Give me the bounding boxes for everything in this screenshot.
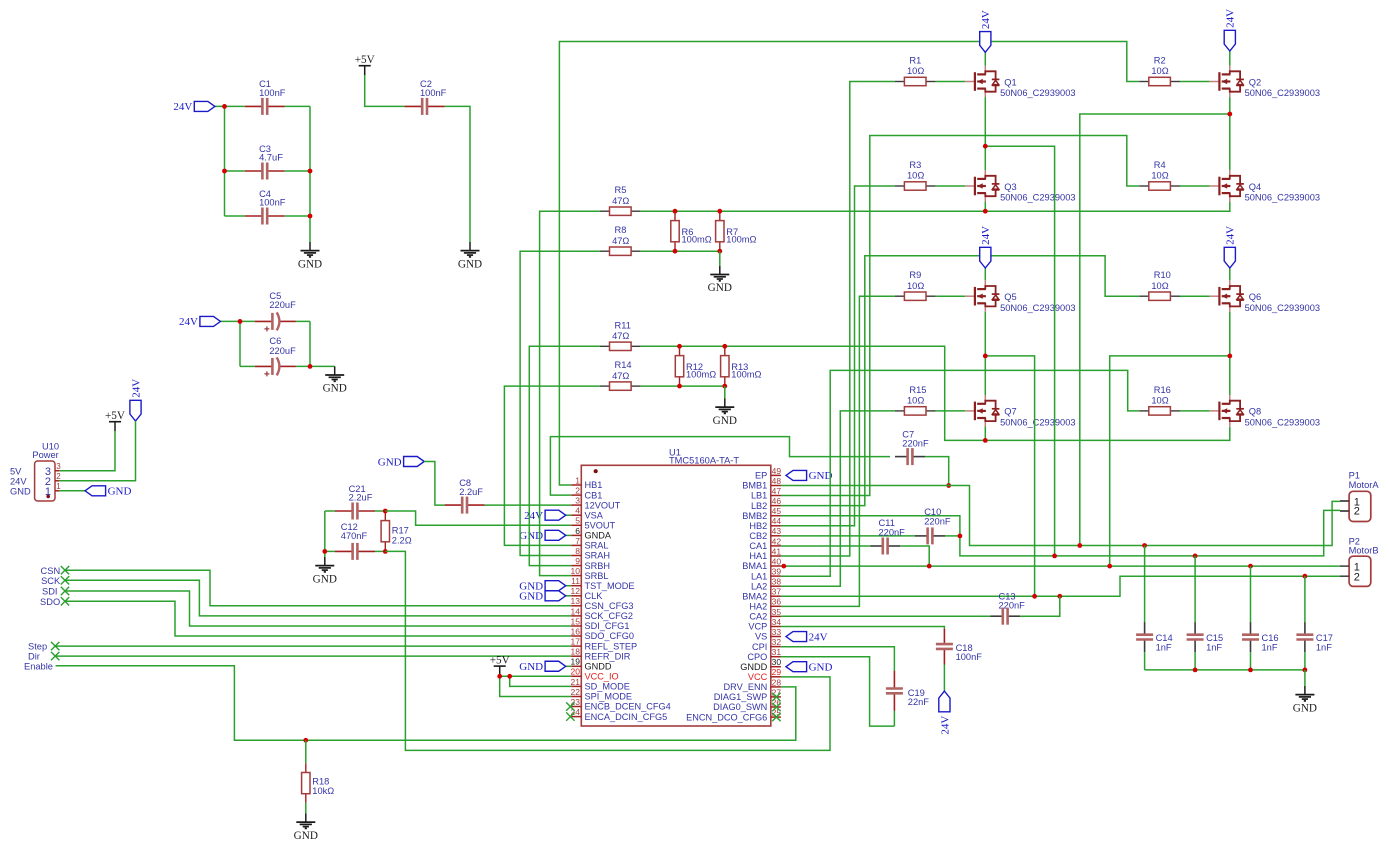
svg-text:BMA2: BMA2 — [742, 591, 767, 601]
U1 pin 46 LB2 — [751, 496, 781, 511]
svg-text:R1: R1 — [909, 56, 921, 66]
svg-text:220nF: 220nF — [902, 438, 929, 448]
svg-text:2.2uF: 2.2uF — [349, 493, 373, 503]
U1 pin-1 marker dot — [594, 469, 598, 473]
net flag 24V (U10) — [130, 379, 143, 421]
U1 pin 16 SDO_CFG0 — [571, 626, 635, 641]
net LA1: pin39 to R16 — [781, 370, 1139, 576]
U1 pin 27 DIAG1_SWP — [714, 687, 782, 702]
svg-text:24V: 24V — [809, 631, 828, 643]
net LB2: pin46 to R10 — [781, 256, 1139, 506]
wire C2 to GND — [445, 106, 470, 242]
svg-text:Q3: Q3 — [1004, 182, 1016, 192]
svg-text:CSN_CFG3: CSN_CFG3 — [585, 601, 634, 611]
U1 pin 12 CLK — [571, 586, 604, 601]
net VCP: pin34 to C18 — [781, 627, 945, 629]
svg-text:470nF: 470nF — [341, 531, 368, 541]
wire C3 row right — [285, 170, 310, 172]
wire Step to pin17 — [55, 645, 571, 647]
junction — [222, 104, 227, 109]
wire C13 to BMA2 row — [1020, 596, 1060, 616]
junction — [383, 549, 388, 554]
net BMB1: pin48 to P1 pin1 — [781, 486, 1340, 546]
svg-text:40: 40 — [772, 556, 782, 566]
junction — [983, 209, 988, 214]
wire SDI to pin15 — [65, 591, 571, 626]
capacitor C6 — [255, 357, 296, 376]
svg-text:1nF: 1nF — [1206, 643, 1222, 653]
svg-text:+5V: +5V — [490, 654, 510, 666]
svg-text:HB2: HB2 — [749, 521, 767, 531]
wire C5-C6 left rail — [239, 321, 241, 366]
svg-text:R17: R17 — [392, 526, 409, 536]
wire node to Q7 drain — [984, 356, 986, 395]
net flag GND (U10) — [85, 486, 131, 498]
port Dir — [51, 652, 59, 660]
svg-text:CA1: CA1 — [749, 541, 767, 551]
U1 pin 35 CA2 — [749, 607, 781, 622]
ground (R18) — [294, 814, 318, 842]
svg-text:22nF: 22nF — [908, 697, 930, 707]
svg-text:GND: GND — [298, 258, 322, 270]
svg-text:2.2uF: 2.2uF — [459, 487, 483, 497]
wire C16 top — [1250, 566, 1252, 622]
svg-text:4: 4 — [575, 506, 580, 516]
svg-text:41: 41 — [772, 546, 782, 556]
svg-text:VCC: VCC — [748, 672, 768, 682]
wire 24V to C5 — [221, 320, 255, 322]
junction — [1057, 594, 1062, 599]
U1 pin 42 CA1 — [749, 536, 781, 551]
resistor R11 — [600, 320, 641, 350]
svg-text:R15: R15 — [909, 385, 926, 395]
junction — [308, 214, 313, 219]
svg-text:Step: Step — [28, 642, 47, 652]
wire C5-C6 right rail — [309, 321, 311, 366]
svg-text:50N06_C2939003: 50N06_C2939003 — [1245, 303, 1320, 313]
svg-text:LA2: LA2 — [751, 581, 767, 591]
ground (C2) — [458, 242, 482, 270]
svg-text:GND: GND — [713, 415, 737, 427]
svg-text:C16: C16 — [1262, 633, 1279, 643]
resistor R5 — [600, 185, 641, 215]
wire Q1 source to node — [984, 97, 986, 146]
port CSN — [61, 566, 69, 574]
svg-text:10kΩ: 10kΩ — [312, 786, 334, 796]
phase A2 to motor bus — [985, 356, 1034, 596]
svg-text:TMC5160A-TA-T: TMC5160A-TA-T — [669, 456, 739, 466]
U1 pin 18 REFR_DIR — [571, 647, 631, 662]
svg-text:Q8: Q8 — [1249, 407, 1261, 417]
wire R18 to GND — [305, 803, 307, 814]
svg-text:50N06_C2939003: 50N06_C2939003 — [1000, 88, 1075, 98]
junction — [958, 534, 963, 539]
wire C6 row left — [240, 365, 255, 367]
U1 pin 7 SRAL — [571, 536, 608, 551]
svg-text:16: 16 — [571, 626, 581, 636]
junction — [308, 364, 313, 369]
wire C1 to right rail — [285, 105, 310, 107]
junction — [1052, 554, 1057, 559]
svg-text:Q4: Q4 — [1249, 182, 1261, 192]
svg-text:LA1: LA1 — [751, 571, 767, 581]
svg-text:17: 17 — [571, 637, 581, 647]
svg-text:R11: R11 — [615, 320, 631, 330]
svg-text:24V: 24V — [980, 226, 992, 245]
junction — [1248, 668, 1253, 673]
svg-text:49: 49 — [772, 466, 782, 476]
net flag 24V (Q5) — [980, 226, 993, 268]
junction phase Q1/Q3 — [983, 144, 988, 149]
wire C17 bottom — [1304, 652, 1306, 670]
resistor R6 — [671, 211, 712, 251]
wire R10 to Q6 gate — [1180, 295, 1210, 297]
svg-text:R3: R3 — [909, 160, 921, 170]
svg-text:GND: GND — [378, 456, 402, 468]
svg-text:38: 38 — [772, 577, 782, 587]
net CB1: pin2 to C7 — [550, 437, 890, 496]
svg-text:SCK_CFG2: SCK_CFG2 — [585, 611, 634, 621]
resistor R14 — [600, 360, 641, 390]
wire R7 to GND — [719, 251, 721, 266]
svg-text:R2: R2 — [1154, 56, 1166, 66]
wire Q3 source to sense row — [984, 202, 986, 212]
wire C14 bottom — [1144, 652, 1146, 670]
wire node to Q3 drain — [984, 146, 986, 170]
svg-text:GND: GND — [458, 258, 482, 270]
svg-text:HA2: HA2 — [749, 602, 767, 612]
junction — [677, 384, 682, 389]
svg-text:DIAG0_SWN: DIAG0_SWN — [713, 702, 767, 712]
junction — [1107, 564, 1112, 569]
sense row B bottom — [641, 250, 720, 252]
stub pin6 — [566, 534, 572, 536]
svg-text:8: 8 — [575, 546, 580, 556]
U1 pin 19 GNDD — [571, 657, 612, 672]
wire Dir to pin18 — [55, 655, 571, 657]
capacitor C14 — [1136, 622, 1153, 652]
U1 pin 21 SD_MODE — [571, 677, 630, 692]
svg-text:39: 39 — [772, 567, 782, 577]
svg-text:CB2: CB2 — [749, 531, 767, 541]
junction — [717, 209, 722, 214]
wire Q2 drain from 24V — [1229, 51, 1231, 66]
capacitor C11 — [870, 538, 900, 555]
net CB2: pin43 to C10 — [781, 535, 915, 537]
no-connect pin23 — [566, 702, 574, 710]
net flag GND (pin30 GNDD) — [786, 662, 832, 674]
svg-text:12: 12 — [571, 586, 581, 596]
U1 pin 26 DIAG0_SWN — [713, 697, 781, 712]
U1 pin 44 HB2 — [749, 516, 781, 531]
svg-text:R14: R14 — [615, 360, 632, 370]
U1 pin 48 BMB1 — [742, 476, 781, 491]
svg-text:35: 35 — [772, 607, 782, 617]
svg-text:SPI_MODE: SPI_MODE — [585, 692, 632, 702]
wire C5 right — [296, 320, 310, 322]
svg-text:GNDA: GNDA — [585, 531, 612, 541]
net SRAH: pin8 to R8 — [520, 251, 600, 555]
svg-text:VCP: VCP — [748, 622, 767, 632]
resistor R12 — [675, 346, 716, 386]
capacitor C17 — [1296, 622, 1313, 652]
wire C12 to R17 bottom — [375, 550, 385, 552]
capacitor C4 — [245, 208, 285, 225]
junction — [497, 674, 502, 679]
svg-text:LB2: LB2 — [751, 501, 767, 511]
U1 pin 20 VCC_IO — [571, 667, 619, 682]
svg-text:R16: R16 — [1154, 385, 1171, 395]
resistor R9 — [895, 270, 936, 300]
svg-text:BMB2: BMB2 — [742, 511, 767, 521]
stub pin12 — [566, 595, 572, 597]
svg-text:GND: GND — [519, 591, 543, 603]
U1 pin 45 BMB2 — [742, 506, 781, 521]
svg-text:1: 1 — [56, 482, 61, 491]
wire +5V to pin20 VCC_IO — [500, 675, 572, 676]
wire R15 to Q7 gate — [936, 410, 966, 412]
svg-text:10Ω: 10Ω — [907, 396, 924, 406]
U1 pin 4 VSA — [571, 506, 604, 521]
wire R9 to Q5 gate — [936, 295, 966, 297]
net CA2: pin35 to C13 — [781, 615, 990, 617]
svg-text:Power: Power — [32, 450, 58, 460]
net HB2: pin44 to R3 — [781, 186, 895, 526]
U1 pin 6 GNDA — [571, 526, 612, 541]
svg-text:100mΩ: 100mΩ — [682, 235, 712, 245]
port SCK — [61, 576, 69, 584]
svg-text:24V: 24V — [173, 101, 192, 113]
no-connect pin26 — [772, 703, 780, 711]
wire U10 pin2 to 24V — [59, 421, 135, 481]
svg-text:EP: EP — [755, 471, 767, 481]
svg-text:29: 29 — [772, 667, 782, 677]
svg-text:50N06_C2939003: 50N06_C2939003 — [1000, 303, 1075, 313]
no-connect pin24 — [566, 712, 574, 720]
svg-text:26: 26 — [772, 697, 782, 707]
capacitor C13 — [990, 608, 1020, 625]
resistor R2 — [1139, 56, 1180, 86]
svg-text:Dir: Dir — [28, 652, 40, 662]
wire +5V to C2 — [365, 75, 405, 106]
resistor R13 — [721, 346, 762, 386]
svg-text:47Ω: 47Ω — [612, 196, 629, 206]
svg-text:42: 42 — [772, 536, 782, 546]
resistor R18 — [302, 763, 335, 803]
net HA2: pin36 to R9 — [781, 296, 895, 606]
U1 pin 25 ENCN_DCO_CFG6 — [686, 708, 781, 723]
wire C19 bottom — [893, 711, 895, 726]
svg-text:50N06_C2939003: 50N06_C2939003 — [1245, 193, 1320, 203]
net flag 24V (Q2) — [1224, 9, 1237, 51]
sense row B top — [641, 202, 1230, 212]
ground (R13) — [713, 399, 737, 427]
wire Q6 source to node — [1229, 312, 1231, 356]
net flag GND (pin11 TST_MODE) — [519, 581, 565, 593]
no-connect pin27 — [772, 693, 780, 701]
net flag 24V (C5 bank) — [179, 316, 221, 328]
transistor Q1 — [965, 66, 1075, 99]
svg-text:CLK: CLK — [585, 591, 604, 601]
svg-text:5VOUT: 5VOUT — [585, 521, 616, 531]
wire left rail C1-C4 — [224, 106, 226, 216]
transistor Q3 — [965, 170, 1075, 203]
svg-text:C6: C6 — [269, 336, 281, 346]
junction — [222, 169, 227, 174]
svg-text:3: 3 — [575, 496, 580, 506]
wire R13 to GND — [724, 386, 726, 398]
wire C14 top — [1144, 546, 1146, 623]
capacitor C3 — [245, 163, 285, 180]
net flag GND (pin12 CLK) — [519, 591, 565, 603]
wire Q1 drain from 24V — [984, 52, 986, 65]
svg-text:GND: GND — [1293, 702, 1317, 714]
net flag GND (pin6 GNDA) — [519, 530, 565, 542]
junction — [1032, 594, 1037, 599]
svg-text:2.2Ω: 2.2Ω — [392, 535, 412, 545]
svg-text:10: 10 — [571, 566, 581, 576]
svg-text:48: 48 — [772, 476, 782, 486]
svg-text:10Ω: 10Ω — [907, 281, 924, 291]
U1 pin 22 SPI_MODE — [571, 687, 632, 702]
junction — [673, 249, 678, 254]
svg-text:Q2: Q2 — [1249, 77, 1261, 87]
transistor Q4 — [1210, 170, 1320, 203]
junction — [722, 344, 727, 349]
svg-text:100mΩ: 100mΩ — [726, 235, 756, 245]
svg-text:12VOUT: 12VOUT — [585, 500, 621, 510]
capacitor C18 — [936, 629, 953, 665]
svg-text:GND: GND — [294, 830, 318, 842]
ground (C12) — [313, 557, 337, 585]
svg-text:50N06_C2939003: 50N06_C2939003 — [1000, 193, 1075, 203]
phase B1 to motor bus — [1080, 114, 1230, 546]
svg-text:MotorB: MotorB — [1349, 546, 1379, 556]
U1 pin 34 VCP — [748, 617, 781, 632]
svg-text:32: 32 — [772, 637, 782, 647]
wire C11 to BMA1 row — [900, 546, 929, 566]
wire Q6 drain from 24V — [1229, 268, 1231, 280]
svg-text:SD_MODE: SD_MODE — [585, 682, 630, 692]
svg-text:ENCN_DCO_CFG6: ENCN_DCO_CFG6 — [686, 712, 767, 722]
wire to pin21 SD_MODE — [510, 676, 572, 686]
wire C18 to 24V — [943, 665, 945, 692]
U1 pin 10 SRBL — [571, 566, 609, 581]
net flag 24V (Q1) — [980, 10, 993, 52]
svg-text:18: 18 — [571, 647, 581, 657]
junction — [1077, 543, 1082, 548]
svg-text:GNDD: GNDD — [585, 662, 612, 672]
svg-text:45: 45 — [772, 506, 782, 516]
U1 pin 39 LA1 — [751, 567, 781, 582]
net flag 24V (C1 bank) — [173, 101, 215, 113]
net CPO: pin31 to C19 — [781, 657, 895, 726]
svg-text:24V: 24V — [1225, 226, 1237, 245]
IC U1 TMC5160A-TA-T body — [581, 465, 771, 726]
svg-text:220uF: 220uF — [269, 300, 296, 310]
svg-text:Q6: Q6 — [1249, 292, 1261, 302]
U1 pin 31 CPO — [747, 647, 781, 662]
svg-text:ENCB_DCEN_CFG4: ENCB_DCEN_CFG4 — [585, 702, 671, 712]
svg-text:4.7uF: 4.7uF — [259, 153, 283, 163]
port Step — [51, 642, 59, 650]
power +5V (VCC_IO) — [490, 654, 510, 675]
transistor Q2 — [1210, 66, 1320, 99]
svg-text:27: 27 — [772, 687, 782, 697]
svg-text:C15: C15 — [1206, 633, 1223, 643]
wire C8 to pin3 12VOUT — [485, 504, 572, 506]
resistor R10 — [1139, 270, 1180, 300]
wire C21-C12 left rail — [324, 511, 326, 557]
svg-text:GND: GND — [708, 282, 732, 294]
wire R16 to Q8 gate — [1180, 410, 1210, 412]
U1 pin 32 CPI — [752, 637, 781, 652]
svg-text:C17: C17 — [1316, 633, 1333, 643]
net flag 24V (pin4 VSA) — [524, 510, 566, 522]
junction — [1303, 668, 1308, 673]
wire Q2 source to node — [1229, 97, 1231, 114]
junction — [308, 169, 313, 174]
wire C17 top — [1304, 576, 1306, 622]
no-connect pin25 — [772, 713, 780, 721]
wire Enable to pin28 DRV_ENN — [56, 666, 796, 741]
svg-text:9: 9 — [575, 556, 580, 566]
svg-text:HB1: HB1 — [585, 480, 603, 490]
svg-text:1nF: 1nF — [1156, 643, 1172, 653]
svg-text:LB1: LB1 — [751, 491, 767, 501]
wire C21 to R17 top — [375, 510, 385, 512]
svg-text:SRBH: SRBH — [585, 561, 611, 571]
svg-text:100nF: 100nF — [956, 652, 983, 662]
svg-text:2: 2 — [575, 486, 580, 496]
wire CSN to pin13 — [65, 570, 571, 606]
svg-text:100nF: 100nF — [259, 88, 286, 98]
svg-text:CB1: CB1 — [585, 490, 603, 500]
junction — [322, 549, 327, 554]
wire right rail C1-GND — [309, 106, 311, 242]
U1 pin 13 CSN_CFG3 — [571, 596, 634, 611]
net flag GND (pin49 EP) — [786, 470, 832, 482]
svg-text:13: 13 — [571, 596, 581, 606]
svg-text:10Ω: 10Ω — [1151, 171, 1168, 181]
net flag GND (C8) — [378, 456, 424, 468]
junction — [927, 564, 932, 569]
U1 pin 40 BMA1 — [742, 556, 781, 571]
svg-text:21: 21 — [571, 677, 581, 687]
svg-text:GND: GND — [323, 383, 347, 395]
svg-text:10Ω: 10Ω — [1151, 396, 1168, 406]
svg-text:R8: R8 — [615, 225, 627, 235]
svg-text:R5: R5 — [615, 185, 627, 195]
svg-text:CA2: CA2 — [749, 612, 767, 622]
svg-text:47: 47 — [772, 486, 782, 496]
svg-text:220nF: 220nF — [879, 527, 906, 537]
junction — [383, 509, 388, 514]
svg-text:CPO: CPO — [747, 652, 767, 662]
wire Q5 source to node — [984, 312, 986, 356]
capacitor C21 — [335, 503, 375, 520]
junction (R18 tap) — [303, 738, 308, 743]
stub pin4 — [566, 514, 572, 516]
svg-text:100nF: 100nF — [259, 198, 286, 208]
wire SDO to pin16 — [65, 601, 571, 636]
junction — [1142, 543, 1147, 548]
U1 pin 8 SRAH — [571, 546, 610, 561]
U1 pin 28 DRV_ENN — [724, 677, 782, 692]
wire C15 top — [1194, 556, 1196, 622]
ground (R7) — [708, 266, 732, 294]
phase A1 to motor bus — [1110, 356, 1230, 566]
